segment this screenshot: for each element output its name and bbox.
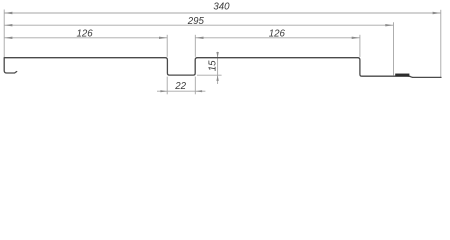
arrow 15 bottom (outside, pointing up) <box>216 75 218 81</box>
extension line x=441 (340 right end) <box>440 10 442 77</box>
extension line x=393 (295 right end) <box>393 22 395 75</box>
hem (folded edge, double thickness) <box>395 74 409 77</box>
svg-text:295: 295 <box>187 16 205 27</box>
svg-text:126: 126 <box>269 29 286 40</box>
svg-text:340: 340 <box>213 1 230 12</box>
dimension line 126 right <box>195 37 360 39</box>
svg-text:15: 15 <box>207 60 218 71</box>
arrow 126L right <box>159 37 167 39</box>
arrow 126L left <box>4 37 12 39</box>
dimension line 295 <box>4 24 393 26</box>
dimension line 126 left <box>4 37 167 39</box>
arrow 126R left <box>195 37 203 39</box>
arrow 340 right <box>433 12 441 14</box>
svg-text:126: 126 <box>77 29 94 40</box>
extension line groove bottom right (22 dim) <box>194 77 196 95</box>
extension line step x=360 (126R right end) <box>359 35 361 57</box>
svg-text:22: 22 <box>174 81 186 92</box>
arrow 340 left <box>4 12 12 14</box>
extension line horizontal for 15 dim bottom <box>197 74 222 76</box>
extension line left (shared, x=4) <box>3 10 5 58</box>
panel profile main outline <box>4 58 441 78</box>
arrow 22 right (outside, pointing left) <box>195 90 202 92</box>
arrow 295 right <box>385 24 393 26</box>
arrow 126R right <box>352 37 360 39</box>
arrow 22 left (outside, pointing right) <box>160 90 167 92</box>
extension line groove right top (126R left end) <box>194 35 196 57</box>
arrow 295 left <box>4 24 12 26</box>
extension line groove bottom left (22 dim) <box>166 77 168 95</box>
extension line groove left top (126L right end) <box>166 35 168 57</box>
dimension line 15 (vertical) <box>217 52 219 84</box>
dimension line 22 <box>157 90 205 92</box>
dimension line 340 <box>4 12 441 14</box>
arrow 15 top (outside, pointing down) <box>216 52 218 58</box>
